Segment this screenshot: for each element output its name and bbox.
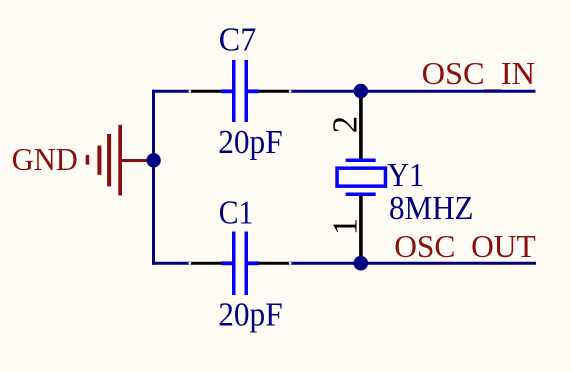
svg-text:8MHZ: 8MHZ (389, 190, 474, 227)
svg-text:1: 1 (326, 218, 365, 235)
svg-text:C1: C1 (219, 194, 254, 231)
svg-text:20pF: 20pF (218, 124, 283, 161)
svg-text:2: 2 (326, 116, 365, 133)
svg-text:Y1: Y1 (387, 157, 424, 194)
svg-text:OSC_OUT: OSC_OUT (394, 228, 536, 267)
svg-text:20pF: 20pF (218, 297, 283, 334)
svg-text:OSC_IN: OSC_IN (422, 55, 536, 94)
svg-text:C7: C7 (219, 21, 256, 58)
svg-text:GND: GND (12, 141, 78, 177)
